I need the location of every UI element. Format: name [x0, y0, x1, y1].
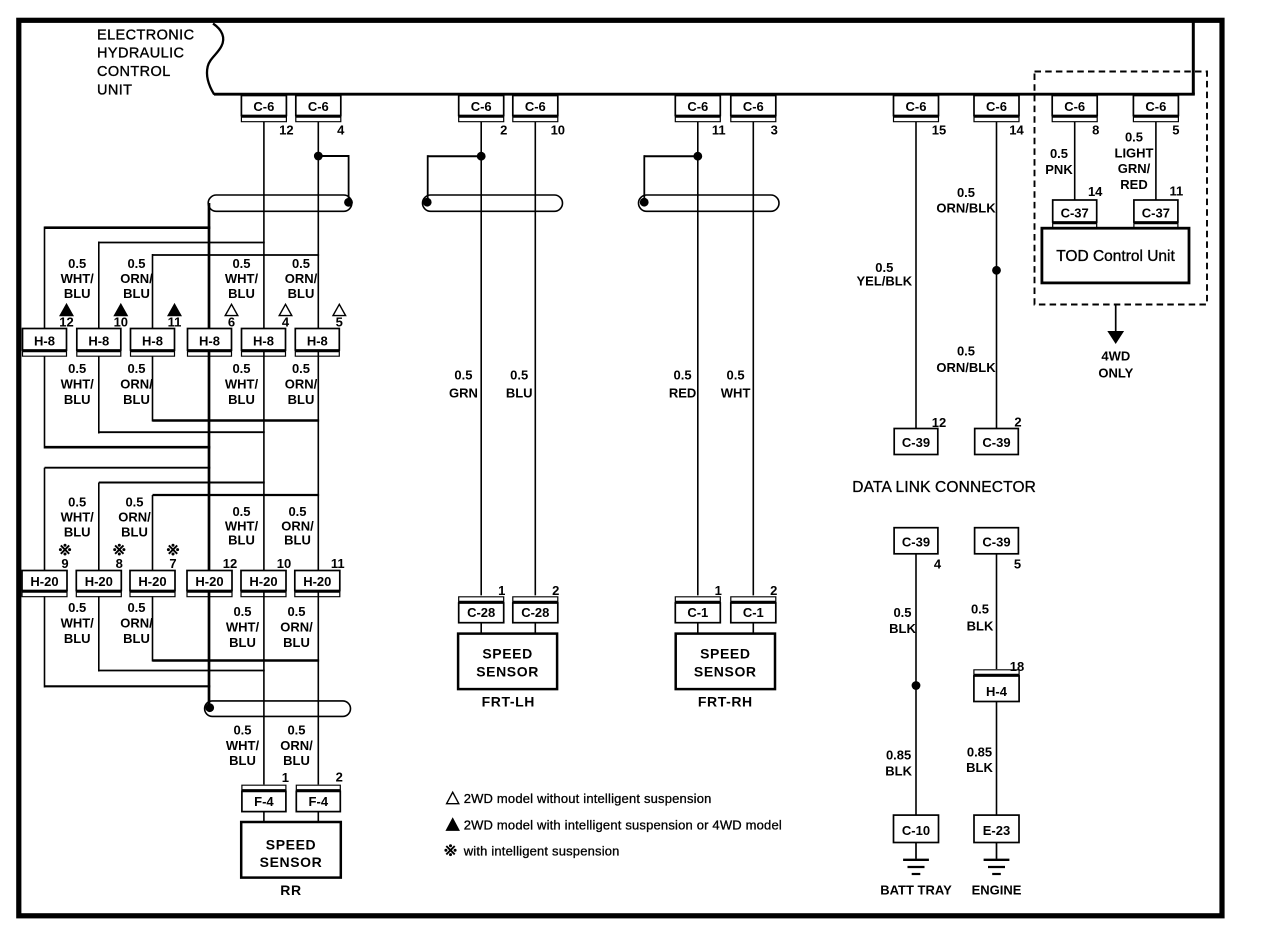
wire C-6 pin11 to C-1 pin1 (0.5 RED): [697, 122, 699, 596]
svg-text:F-4: F-4: [309, 794, 329, 809]
svg-text:11: 11: [168, 315, 182, 330]
svg-text:8: 8: [1092, 123, 1099, 138]
connector F-4 pin 1: [242, 785, 286, 811]
svg-text:11: 11: [712, 123, 726, 138]
FRT-RH speed sensor box: [676, 634, 775, 690]
junction dot on pin2 wire: [477, 152, 486, 161]
svg-text:C-6: C-6: [687, 99, 708, 114]
connector C-6 pin 15: [894, 96, 939, 122]
svg-text:C-6: C-6: [906, 99, 927, 114]
loop wire H-8 top row middle: [99, 242, 265, 244]
wire to H-20 pin8 upper segment: [98, 483, 100, 572]
svg-text:C-37: C-37: [1142, 206, 1170, 221]
ground symbol under E-23 (ENGINE): [984, 843, 1010, 875]
junction dot on pin4 wire: [314, 152, 323, 161]
svg-text:FRT-RH: FRT-RH: [698, 694, 753, 710]
svg-text:0.85BLK: 0.85BLK: [885, 748, 912, 779]
wire to H-20 pin7 upper segment: [152, 495, 154, 572]
connector C-6 pin 2: [459, 96, 504, 122]
loop wire H-20 top row inner: [153, 494, 320, 496]
loop wire H-20 bottom row inner: [153, 659, 320, 662]
svg-text:1: 1: [282, 770, 289, 785]
svg-text:C-6: C-6: [525, 99, 546, 114]
loop wire H-20 top row middle: [99, 482, 265, 484]
wire C-6 pin2 to C-28 pin1 (0.5 GRN): [480, 122, 482, 596]
svg-text:1: 1: [498, 583, 505, 598]
svg-text:C-6: C-6: [1145, 99, 1166, 114]
svg-text:0.85BLK: 0.85BLK: [966, 745, 993, 776]
loop wire H-8 bottom row outer: [45, 446, 211, 449]
svg-text:8: 8: [116, 556, 123, 571]
wire loop outer left upper segment: [44, 227, 46, 330]
junction dot on BLK wire: [912, 681, 921, 690]
svg-text:10: 10: [551, 123, 565, 138]
svg-text:14: 14: [1088, 184, 1103, 199]
svg-text:H-8: H-8: [199, 334, 220, 349]
svg-text:H-8: H-8: [142, 334, 163, 349]
connector C-39 pin 2: [975, 429, 1019, 455]
filled triangle marker above H-8 pin 11: [168, 304, 181, 315]
stub F-4 pin1 to RR sensor: [263, 812, 265, 823]
connector H-20 #4: [187, 571, 232, 597]
junction dot at capsule2 left end: [423, 198, 432, 207]
loop wire H-8 top row inner: [153, 254, 320, 256]
connector C-37 pin 14: [1053, 200, 1097, 228]
svg-text:12: 12: [59, 315, 73, 330]
wire C-6 pin15 to C-39 pin12 (0.5 YEL/BLK): [915, 122, 917, 429]
svg-text:C-6: C-6: [1064, 99, 1085, 114]
svg-text:9: 9: [61, 556, 68, 571]
connector C-39 pin 12: [894, 429, 938, 455]
wire C-6 pin5 to C-37 pin11 (0.5 LIGHT GRN/RED): [1155, 122, 1157, 201]
connector C-6 pin 14: [974, 96, 1019, 122]
svg-text:10: 10: [114, 315, 128, 330]
svg-text:FRT-LH: FRT-LH: [482, 694, 535, 710]
svg-text:2: 2: [336, 770, 343, 785]
connector H-8 #4: [188, 329, 232, 357]
svg-text:2: 2: [770, 583, 777, 598]
connector C-39 pin 4: [894, 528, 938, 554]
svg-text:2WD model with intelligent sus: 2WD model with intelligent suspension or…: [464, 818, 782, 833]
legend row 2: filled triangle = 2WD model with intelligent suspension or 4WD model: [447, 819, 459, 831]
reference mark above H-20 pin 9: [61, 545, 69, 553]
svg-text:F-4: F-4: [254, 794, 274, 809]
svg-text:2: 2: [552, 583, 559, 598]
connector H-20 #5: [241, 571, 286, 597]
wire H-8 pin11 lower segment: [152, 357, 154, 422]
wire C-6 pin10 to C-28 pin2 (0.5 BLU): [534, 122, 536, 596]
svg-text:10: 10: [277, 556, 291, 571]
TOD Control Unit box: [1042, 228, 1189, 283]
branch wire from pin2 wire to shield capsule 2: [428, 155, 482, 157]
svg-text:C-39: C-39: [902, 534, 930, 549]
connector C-28 pin 2: [513, 597, 558, 623]
svg-text:C-28: C-28: [521, 605, 549, 620]
svg-text:H-20: H-20: [249, 574, 277, 589]
svg-text:C-6: C-6: [308, 99, 329, 114]
svg-text:5: 5: [1172, 123, 1179, 138]
ground symbol under C-10 (BATT TRAY): [903, 843, 929, 875]
loop wire H-8 bottom row inner: [153, 419, 320, 422]
svg-text:11: 11: [1170, 184, 1184, 199]
wire C-6 pin12 to F-4 pin1 (0.5 WHT/BLU): [263, 122, 265, 785]
connector H-8 #5: [242, 329, 286, 357]
svg-text:with intelligent suspension: with intelligent suspension: [463, 844, 620, 859]
svg-text:TOD Control Unit: TOD Control Unit: [1056, 248, 1175, 265]
svg-text:H-20: H-20: [138, 574, 166, 589]
reference mark above H-20 pin 8: [115, 545, 123, 553]
connector H-4 pin 18: [974, 670, 1019, 702]
connector F-4 pin 2: [296, 785, 340, 811]
svg-text:DATA LINK CONNECTOR: DATA LINK CONNECTOR: [852, 479, 1036, 496]
stub C-28 pin2 to FRT-LH sensor: [534, 623, 536, 635]
wire H-20 pin7 lower segment: [152, 596, 154, 661]
wire C-39 pin5 to H-4 pin18 (0.5 BLK): [996, 554, 998, 669]
svg-text:H-20: H-20: [30, 574, 58, 589]
junction dot at capsule1 right end: [344, 198, 353, 207]
svg-text:H-8: H-8: [307, 334, 328, 349]
filled triangle marker above H-8 pin 10: [115, 304, 128, 315]
wire loop inner left upper segment: [152, 254, 154, 330]
svg-text:C-39: C-39: [982, 534, 1010, 549]
connector C-6 pin 4: [296, 96, 341, 122]
connector C-39 pin 5: [975, 528, 1019, 554]
connector C-6 pin 10: [513, 96, 558, 122]
stub F-4 pin2 to RR sensor: [317, 812, 319, 823]
wire C-6 pin14 to C-39 pin2 (0.5 ORN/BLK): [996, 122, 998, 429]
stub C-1 pin2 to FRT-RH sensor: [752, 623, 754, 635]
svg-text:C-6: C-6: [253, 99, 274, 114]
shield capsule bottom (RR speed sensor shield): [205, 701, 351, 717]
connector C-1 pin 2: [731, 597, 776, 623]
shield capsule top-1 (RR circuit shield): [208, 195, 352, 211]
junction dot on pin11 wire: [693, 152, 702, 161]
svg-text:C-28: C-28: [467, 605, 495, 620]
svg-text:C-6: C-6: [743, 99, 764, 114]
connector C-6 pin 12: [241, 96, 286, 122]
svg-text:BATT TRAY: BATT TRAY: [880, 883, 952, 898]
connector C-6 pin 8: [1052, 96, 1097, 122]
legend row 3: reference mark = with intelligent suspension: [446, 846, 454, 854]
svg-text:3: 3: [771, 123, 778, 138]
svg-text:12: 12: [932, 415, 946, 430]
svg-text:15: 15: [932, 123, 946, 138]
junction dot on ORN/BLK wire: [992, 266, 1001, 275]
svg-text:C-39: C-39: [982, 435, 1010, 450]
loop wire H-8 bottom row middle: [99, 431, 265, 433]
branch wire from pin4 wire to shield capsule 1: [318, 155, 348, 157]
connector H-8 #1: [23, 329, 67, 357]
svg-text:C-10: C-10: [902, 823, 930, 838]
connector H-8 #3: [131, 329, 175, 357]
filled triangle marker above H-8 pin 12: [60, 304, 73, 315]
open triangle marker above H-8 pin 5: [333, 304, 346, 315]
svg-text:5: 5: [1014, 557, 1021, 572]
junction dot at capsule3 left end: [640, 198, 649, 207]
RR speed sensor box: [241, 822, 341, 878]
svg-text:4: 4: [934, 557, 942, 572]
svg-text:H-8: H-8: [88, 334, 109, 349]
svg-text:H-8: H-8: [253, 334, 274, 349]
svg-text:H-20: H-20: [85, 574, 113, 589]
svg-text:7: 7: [169, 556, 176, 571]
svg-text:H-4: H-4: [986, 684, 1008, 699]
wire H-4 to E-23 (0.85 BLK): [996, 702, 998, 816]
wire H-20 pin8 lower segment: [98, 596, 100, 671]
svg-text:2: 2: [500, 123, 507, 138]
svg-text:H-20: H-20: [195, 574, 223, 589]
wire C-39 pin4 to C-10 (0.5/0.85 BLK): [915, 554, 917, 815]
legend row 1: open triangle = 2WD model without intelligent suspension: [447, 792, 459, 804]
svg-text:6: 6: [228, 315, 235, 330]
dashed 4WD-only enclosure box: [1035, 72, 1208, 305]
stub C-28 pin1 to FRT-LH sensor: [480, 623, 482, 635]
wire H-8 pin10 lower segment: [98, 357, 100, 434]
shield drain wire (thick) capsule1 to RR capsule: [208, 203, 211, 708]
connector E-23: [974, 815, 1019, 842]
stub C-1 pin1 to FRT-RH sensor: [697, 623, 699, 635]
connector C-6 pin 11: [675, 96, 720, 122]
ECU Electronic Hydraulic Control Unit outline: bus line, right edge, break squiggle: [207, 22, 1195, 95]
arrow from dashed box to 4WD ONLY note: [1115, 305, 1117, 332]
connector H-8 #6: [295, 329, 339, 357]
wire C-6 pin3 to C-1 pin2 (0.5 WHT): [752, 122, 754, 596]
wire C-6 pin8 to C-37 pin14 (0.5 PNK): [1074, 122, 1076, 201]
svg-text:RR: RR: [280, 882, 301, 898]
svg-text:4: 4: [282, 315, 290, 330]
connector C-28 pin 1: [459, 597, 504, 623]
connector H-20 #6: [295, 571, 340, 597]
connector C-37 pin 11: [1134, 200, 1178, 228]
shield capsule top-3 (FRT-RH shield): [639, 195, 780, 211]
connector H-20 #3: [130, 571, 175, 597]
svg-text:C-37: C-37: [1061, 206, 1089, 221]
svg-text:1: 1: [715, 583, 722, 598]
wire H-8 pin12 lower segment: [44, 357, 46, 449]
svg-text:2WD model without intelligent: 2WD model without intelligent suspension: [464, 791, 712, 806]
wire loop middle left upper segment: [98, 242, 100, 330]
svg-text:12: 12: [223, 556, 237, 571]
wire C-6 pin4 to F-4 pin2 (0.5 ORN/BLU): [317, 122, 319, 785]
svg-text:11: 11: [331, 556, 345, 571]
open triangle marker above H-8 pin 6: [225, 304, 238, 315]
reference mark above H-20 pin 7: [169, 545, 177, 553]
svg-text:14: 14: [1009, 123, 1024, 138]
loop wire H-20 bottom row middle: [99, 670, 265, 672]
svg-text:E-23: E-23: [983, 823, 1010, 838]
connector C-10: [894, 815, 939, 842]
loop wire H-20 top row outer: [45, 467, 211, 469]
shield capsule top-2 (FRT-LH shield): [423, 195, 563, 211]
wire to H-20 pin9 upper segment: [44, 468, 46, 572]
svg-text:C-1: C-1: [743, 605, 764, 620]
svg-text:ENGINE: ENGINE: [972, 883, 1022, 898]
svg-text:H-8: H-8: [34, 334, 55, 349]
junction dot at RR capsule left end: [205, 703, 214, 712]
connector C-6 pin 3: [731, 96, 776, 122]
svg-text:C-6: C-6: [471, 99, 492, 114]
loop wire H-20 bottom row outer: [45, 685, 211, 687]
connector H-20 #2: [76, 571, 121, 597]
connector C-6 pin 5: [1133, 96, 1178, 122]
connector C-1 pin 1: [675, 597, 720, 623]
connector H-20 #1: [22, 571, 67, 597]
FRT-LH speed sensor box: [458, 634, 557, 690]
svg-text:C-1: C-1: [687, 605, 708, 620]
svg-text:C-6: C-6: [986, 99, 1007, 114]
svg-text:18: 18: [1010, 659, 1024, 674]
branch wire from pin11 wire to shield capsule 3: [644, 155, 698, 157]
svg-text:5: 5: [336, 315, 343, 330]
svg-text:C-39: C-39: [902, 435, 930, 450]
loop wire H-8 top row outer: [45, 226, 211, 229]
svg-text:2: 2: [1014, 415, 1021, 430]
open triangle marker above H-8 pin 4: [279, 304, 292, 315]
wire H-20 pin9 lower segment: [44, 596, 46, 687]
svg-text:12: 12: [279, 123, 293, 138]
connector H-8 #2: [77, 329, 121, 357]
svg-text:H-20: H-20: [303, 574, 331, 589]
svg-text:SPEEDSENSOR: SPEEDSENSOR: [260, 837, 323, 871]
svg-text:4: 4: [337, 123, 345, 138]
